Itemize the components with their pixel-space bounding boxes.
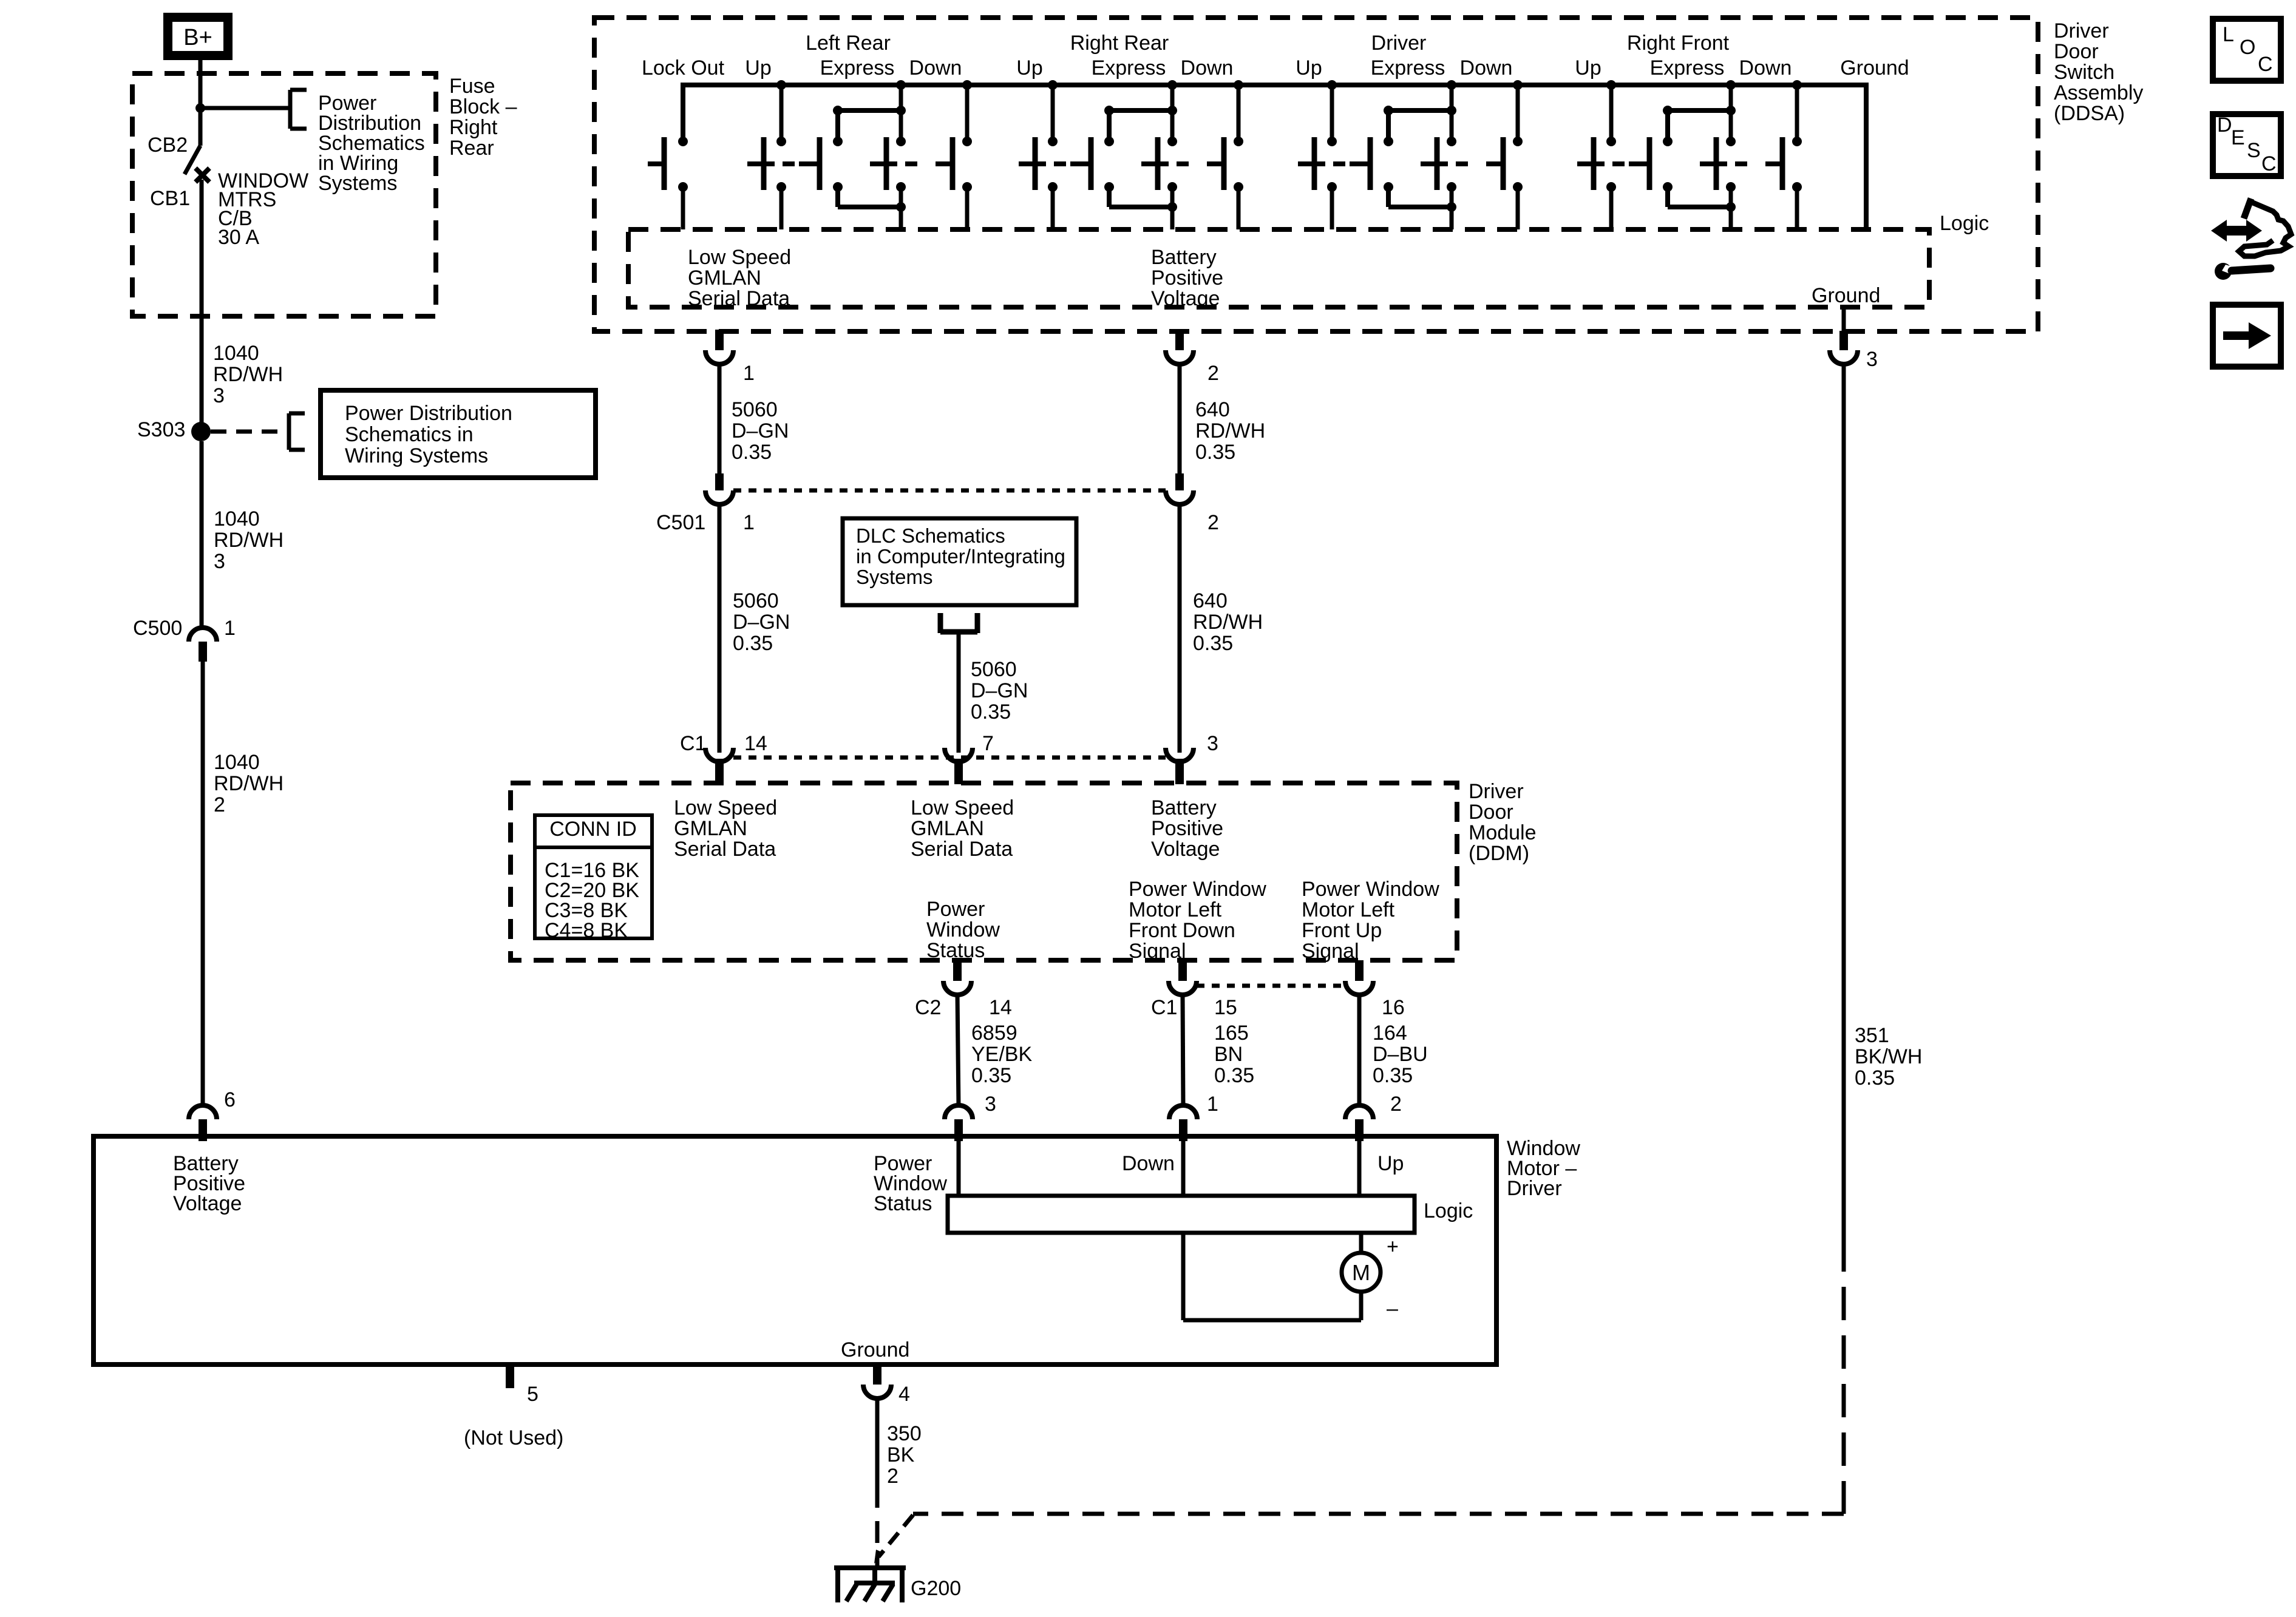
wire DDSA pin2 to C501 (640 RD/WH 0.35): [1178, 364, 1182, 475]
svg-text:RD/WH: RD/WH: [1195, 419, 1265, 442]
svg-text:Power Window: Power Window: [1129, 878, 1266, 901]
svg-text:GMLAN: GMLAN: [674, 817, 747, 840]
wires motor pins into logic bar: [959, 1141, 1359, 1196]
wire label 1040 RD/WH 2: [214, 751, 284, 816]
wire label 350 BK 2: [887, 1422, 922, 1488]
svg-text:Status: Status: [874, 1192, 932, 1215]
svg-text:0.35: 0.35: [732, 441, 772, 464]
svg-text:Motor Left: Motor Left: [1129, 898, 1222, 921]
svg-text:Right: Right: [449, 116, 498, 139]
svg-text:Express: Express: [1371, 56, 1445, 80]
wire logic bar to motor +: [1359, 1233, 1364, 1253]
label Up (Driver): [1296, 56, 1322, 80]
svg-text:Door: Door: [2054, 40, 2099, 63]
label Down (Right Rear): [1181, 56, 1234, 80]
LOC reference icon: [2213, 19, 2281, 81]
wire label 6859 YE/BK 0.35: [971, 1022, 1032, 1087]
Driver Down switch: [1486, 161, 1503, 166]
svg-text:Driver: Driver: [1371, 32, 1427, 55]
svg-text:Logic: Logic: [1424, 1199, 1473, 1222]
svg-text:0.35: 0.35: [1214, 1064, 1254, 1087]
DDSA outer box (Driver Door Switch Assembly): [594, 18, 2038, 331]
svg-text:2: 2: [1390, 1093, 1402, 1116]
switch group Right Rear: [1019, 80, 1243, 229]
svg-text:1: 1: [1207, 1093, 1218, 1116]
svg-text:Motor Left: Motor Left: [1302, 898, 1395, 921]
pin number 3: [1207, 732, 1218, 755]
svg-text:0.35: 0.35: [971, 700, 1011, 724]
circuit breaker CB1 WINDOW MTRS C/B 30 A: [185, 108, 209, 182]
svg-text:1: 1: [743, 362, 755, 385]
wire DDM C1-15 to motor pin 1 (165 BN 0.35): [1183, 995, 1183, 1107]
pin number 5: [527, 1383, 538, 1406]
pin number 3 (motor): [985, 1093, 996, 1116]
svg-text:C1: C1: [1151, 996, 1177, 1019]
label Logic (motor): [1424, 1199, 1473, 1222]
svg-text:Driver: Driver: [2054, 19, 2109, 42]
svg-text:Signal: Signal: [1302, 940, 1359, 963]
wire label 5060 D-GN 0.35: [732, 398, 789, 464]
DDM connector C1 pin 7: [945, 748, 973, 784]
svg-text:0.35: 0.35: [1855, 1066, 1895, 1090]
switch group Driver: [1298, 80, 1523, 229]
wire label 640 RD/WH 0.35: [1193, 589, 1263, 655]
svg-text:Low Speed: Low Speed: [674, 796, 777, 819]
svg-text:GMLAN: GMLAN: [688, 266, 761, 290]
svg-text:O: O: [2240, 36, 2255, 59]
label Up (Left Rear): [745, 56, 771, 80]
svg-text:Logic: Logic: [1940, 212, 1989, 235]
wire label 5060 D-GN 0.35: [733, 589, 790, 655]
svg-text:14: 14: [989, 996, 1012, 1019]
motor pin 4 connector (ground): [863, 1364, 891, 1398]
svg-text:Up: Up: [1016, 56, 1042, 80]
svg-text:Driver: Driver: [1469, 780, 1524, 803]
svg-text:Front Down: Front Down: [1129, 919, 1235, 942]
pin number 2: [1207, 362, 1219, 385]
label Power Window Status (DDM): [926, 898, 1000, 962]
svg-text:CONN ID: CONN ID: [549, 818, 637, 841]
connector C501 pin 2: [1166, 473, 1194, 504]
svg-text:5060: 5060: [971, 658, 1017, 681]
wire junction to power distribution reference: [200, 106, 290, 110]
svg-text:5060: 5060: [732, 398, 778, 421]
svg-text:Down: Down: [909, 56, 962, 80]
svg-text:Express: Express: [1650, 56, 1725, 80]
svg-text:Signal: Signal: [1129, 940, 1186, 963]
label Battery Positive Voltage (DDSA): [1151, 246, 1223, 310]
pin number 1 at C500: [224, 617, 236, 640]
label Up (Right Front): [1575, 56, 1601, 80]
label Ground (DDSA logic): [1812, 284, 1880, 307]
pin number 4: [898, 1383, 910, 1406]
svg-text:Driver: Driver: [1507, 1177, 1562, 1200]
svg-text:CB1: CB1: [150, 187, 190, 210]
label CB2: [148, 134, 188, 157]
Right Rear Up/Express gang linkage: [1054, 161, 1066, 166]
group title Driver: [1371, 32, 1427, 55]
label C1: [680, 732, 706, 755]
svg-text:4: 4: [898, 1383, 910, 1406]
svg-text:DLC Schematics: DLC Schematics: [856, 524, 1005, 547]
svg-text:5060: 5060: [733, 589, 779, 612]
dashed continuation of ground wire to G200: [913, 1238, 1844, 1514]
svg-text:Ground: Ground: [1840, 56, 1909, 80]
svg-text:15: 15: [1214, 996, 1237, 1019]
svg-text:C500: C500: [133, 617, 182, 640]
DDSA internal logic box: [628, 229, 1929, 307]
fuse block label Fuse Block - Right Rear: [449, 75, 517, 160]
svg-text:G200: G200: [911, 1577, 961, 1600]
wire DDM C2-14 to motor pin 3 (6859 YE/BK 0.35): [957, 995, 959, 1107]
svg-text:Fuse: Fuse: [449, 75, 495, 98]
label Lock Out: [642, 56, 725, 80]
C501 connector dotted line: [733, 489, 1166, 493]
svg-text:S303: S303: [137, 418, 185, 441]
svg-text:2: 2: [214, 793, 225, 816]
svg-text:Down: Down: [1122, 1152, 1175, 1175]
label Low Speed GMLAN Serial Data (DDM pin7): [911, 796, 1014, 861]
Right Rear Express/Down gang linkage: [1177, 161, 1189, 166]
svg-text:Down: Down: [1181, 56, 1234, 80]
svg-text:Door: Door: [1469, 801, 1513, 824]
label Power Window Motor Left Front Up Signal: [1302, 878, 1439, 963]
svg-text:in Computer/Integrating: in Computer/Integrating: [856, 545, 1065, 568]
svg-text:0.35: 0.35: [1195, 441, 1235, 464]
svg-text:BK: BK: [887, 1443, 915, 1466]
wire C500 to window motor pin 6 (1040 RD/WH 2): [201, 662, 205, 1107]
motor + terminal: [1387, 1235, 1399, 1258]
svg-text:Systems: Systems: [318, 172, 397, 195]
label C1 (bottom): [1151, 996, 1177, 1019]
Left Rear Up switch: [776, 80, 786, 90]
svg-text:Battery: Battery: [1151, 796, 1217, 819]
window motor box (Window Motor - Driver): [93, 1136, 1496, 1364]
svg-text:Up: Up: [1296, 56, 1322, 80]
svg-text:E: E: [2231, 126, 2245, 149]
svg-text:1: 1: [743, 511, 755, 534]
wire label 1040 RD/WH 3: [213, 342, 283, 407]
Right Rear Express switch (up contact): [1070, 161, 1091, 166]
label Ground (DDSA top): [1840, 56, 1909, 80]
svg-text:164: 164: [1373, 1022, 1407, 1045]
svg-text:M: M: [1352, 1260, 1370, 1285]
svg-text:Up: Up: [1575, 56, 1601, 80]
svg-text:GMLAN: GMLAN: [911, 817, 984, 840]
pin number 1 (motor): [1207, 1093, 1218, 1116]
svg-text:(DDM): (DDM): [1469, 842, 1529, 865]
svg-text:Low Speed: Low Speed: [688, 246, 791, 269]
svg-text:14: 14: [744, 732, 767, 755]
svg-text:RD/WH: RD/WH: [1193, 611, 1263, 634]
CONN ID header: [549, 818, 637, 841]
svg-text:D–GN: D–GN: [971, 679, 1028, 702]
svg-text:–: –: [1387, 1297, 1398, 1320]
svg-text:Up: Up: [1377, 1152, 1404, 1175]
Left Rear Down switch: [936, 161, 953, 166]
pin number 14: [989, 996, 1012, 1019]
svg-text:D–GN: D–GN: [732, 419, 789, 442]
switch group Left Rear: [648, 80, 972, 229]
svg-text:Express: Express: [820, 56, 895, 80]
motor pin 1 connector: [1169, 1105, 1197, 1141]
svg-text:3: 3: [214, 550, 225, 573]
Left Rear Express switch (down contact): [896, 80, 906, 90]
label Power Window Status (motor): [874, 1152, 947, 1215]
fuse block box: [132, 73, 436, 316]
label CB1: [150, 187, 190, 210]
Right Rear Down switch: [1207, 161, 1224, 166]
svg-text:BK/WH: BK/WH: [1855, 1045, 1922, 1068]
pin number 2 at C501: [1207, 511, 1219, 534]
label Down (Right Front): [1739, 56, 1792, 80]
svg-text:YE/BK: YE/BK: [971, 1043, 1032, 1066]
pin number 6: [224, 1088, 236, 1111]
svg-text:165: 165: [1214, 1022, 1249, 1045]
pin number 15: [1214, 996, 1237, 1019]
svg-text:Ground: Ground: [1812, 284, 1880, 307]
svg-text:Low Speed: Low Speed: [911, 796, 1014, 819]
wire B+ to fuse block: [199, 60, 203, 109]
pin number 1: [743, 362, 755, 385]
label Down (Driver): [1460, 56, 1513, 80]
DDM connector pin 16: [1345, 960, 1373, 995]
svg-text:640: 640: [1195, 398, 1230, 421]
DDM connector C1 pin 14: [705, 748, 733, 784]
CONN ID rows: [545, 859, 639, 942]
svg-text:0.35: 0.35: [733, 632, 773, 655]
motor pin 6 connector: [189, 1105, 217, 1141]
connector C501 pin 1: [705, 473, 733, 504]
label Express (Left Rear): [820, 56, 895, 80]
pin number 3: [1866, 348, 1878, 371]
svg-text:(Not Used): (Not Used): [464, 1426, 563, 1449]
svg-text:Wiring Systems: Wiring Systems: [345, 444, 488, 467]
svg-text:6: 6: [224, 1088, 236, 1111]
svg-text:Voltage: Voltage: [173, 1192, 242, 1215]
connector C500 pin 1: [189, 628, 217, 662]
svg-text:30 A: 30 A: [218, 226, 259, 249]
svg-text:Right Rear: Right Rear: [1070, 32, 1169, 55]
forward arrow icon: [2213, 305, 2281, 367]
motor pin 5 stub (not used): [506, 1364, 514, 1388]
svg-text:C1: C1: [680, 732, 706, 755]
svg-text:Rear: Rear: [449, 137, 494, 160]
label Down (motor): [1122, 1152, 1175, 1175]
Right Front Down switch: [1765, 161, 1782, 166]
label Battery Positive Voltage (DDM): [1151, 796, 1223, 861]
svg-text:Positive: Positive: [1151, 266, 1223, 290]
junction node in fuse block: [195, 103, 205, 113]
Right Front Express switch (up contact): [1629, 161, 1649, 166]
dashed reference wire from S303: [211, 430, 280, 434]
svg-text:Up: Up: [745, 56, 771, 80]
motor pin 3 connector: [945, 1105, 973, 1141]
wire label 1040 RD/WH 3: [214, 507, 284, 573]
half-connector bracket to Power Distribution Schematics: [290, 90, 307, 129]
svg-text:Serial Data: Serial Data: [674, 838, 776, 861]
svg-text:D–GN: D–GN: [733, 611, 790, 634]
label Express (Right Rear): [1092, 56, 1166, 80]
svg-text:7: 7: [982, 732, 994, 755]
svg-text:1040: 1040: [214, 751, 260, 774]
DDM connector C1 pin 15: [1169, 960, 1197, 995]
svg-text:Voltage: Voltage: [1151, 287, 1220, 310]
wire DDM pin16 to motor pin 2 (164 D-BU 0.35): [1357, 995, 1362, 1107]
Left Rear Up/Express gang linkage: [783, 161, 795, 166]
svg-text:Down: Down: [1460, 56, 1513, 80]
svg-text:6859: 6859: [971, 1022, 1017, 1045]
label S303: [137, 418, 185, 441]
svg-text:1040: 1040: [213, 342, 259, 365]
svg-text:C4=8 BK: C4=8 BK: [545, 919, 628, 942]
power distribution schematics reference box: [321, 390, 596, 478]
label Down (Left Rear): [909, 56, 962, 80]
label C500: [133, 617, 182, 640]
svg-text:5: 5: [527, 1383, 538, 1406]
group title Left Rear: [806, 32, 891, 55]
DDSA pin 3 connector (ground): [1830, 307, 1858, 364]
svg-text:RD/WH: RD/WH: [213, 363, 283, 386]
pin number 16: [1382, 996, 1405, 1019]
svg-text:Right Front: Right Front: [1627, 32, 1730, 55]
svg-text:3: 3: [985, 1093, 996, 1116]
DDM connector C2 pin 14: [943, 960, 971, 995]
Driver Express switch (up contact): [1350, 161, 1370, 166]
svg-text:Serial Data: Serial Data: [911, 838, 1013, 861]
svg-text:Assembly: Assembly: [2054, 81, 2143, 104]
svg-text:0.35: 0.35: [1193, 632, 1233, 655]
label G200: [911, 1577, 961, 1600]
svg-text:Front Up: Front Up: [1302, 919, 1382, 942]
Right Front Up/Express gang linkage: [1612, 161, 1625, 166]
splice S303: [191, 422, 211, 441]
switch group Right Front: [1577, 80, 1802, 229]
svg-text:C: C: [2261, 152, 2277, 175]
label Logic (DDSA): [1940, 212, 1989, 235]
svg-text:Battery: Battery: [1151, 246, 1217, 269]
switch bus wire: [683, 85, 1866, 231]
svg-text:1040: 1040: [214, 507, 260, 531]
DESC reference icon: [2213, 114, 2281, 176]
svg-text:3: 3: [213, 384, 225, 407]
svg-text:RD/WH: RD/WH: [214, 529, 284, 552]
label Up (motor): [1377, 1152, 1404, 1175]
DDM C1 connector row dotted line: [733, 756, 1166, 760]
svg-text:Status: Status: [926, 939, 985, 962]
svg-text:(DDSA): (DDSA): [2054, 102, 2125, 125]
pin number 1 at C501: [743, 511, 755, 534]
svg-text:Voltage: Voltage: [1151, 838, 1220, 861]
svg-text:L: L: [2223, 23, 2234, 46]
svg-text:+: +: [1387, 1235, 1399, 1258]
svg-text:B+: B+: [183, 25, 212, 50]
Right Front Express/Down gang linkage: [1735, 161, 1747, 166]
DDSA pin 1 connector: [705, 330, 733, 364]
DDM pin15-16 dotted connector line: [1197, 984, 1345, 988]
wire DDSA pin1 to C501 (5060 D-GN 0.35): [718, 364, 722, 475]
pin number 7: [982, 732, 994, 755]
label Window Motor - Driver: [1507, 1137, 1580, 1200]
wire C501-2 to DDM C1-3 (640 RD/WH 0.35): [1178, 504, 1182, 753]
B+ battery feed symbol: [168, 18, 228, 56]
svg-text:Left Rear: Left Rear: [806, 32, 891, 55]
svg-text:351: 351: [1855, 1024, 1889, 1047]
label Express (Right Front): [1650, 56, 1725, 80]
label C2: [915, 996, 941, 1019]
label Express (Driver): [1371, 56, 1445, 80]
pin number 2 (motor): [1390, 1093, 1402, 1116]
half-connector bracket below DLC box: [940, 613, 977, 633]
svg-text:350: 350: [887, 1422, 922, 1445]
svg-text:3: 3: [1866, 348, 1878, 371]
svg-text:Down: Down: [1739, 56, 1792, 80]
DDSA pin 2 connector: [1166, 330, 1194, 364]
label Up (Right Rear): [1016, 56, 1042, 80]
svg-text:Schematics in: Schematics in: [345, 423, 474, 446]
wire CB1 to S303 (1040 RD/WH 3): [200, 180, 204, 423]
Right Front Express switch (down contact): [1726, 80, 1736, 90]
svg-text:D: D: [2217, 114, 2232, 137]
Driver Up switch: [1327, 80, 1337, 90]
label Driver Door Module (DDM): [1469, 780, 1537, 865]
group title Right Front: [1627, 32, 1730, 55]
power distribution schematics note: [318, 92, 425, 195]
ground G200 symbol: [834, 1568, 906, 1602]
label Low Speed GMLAN Serial Data (DDSA): [688, 246, 791, 310]
svg-text:Power Distribution: Power Distribution: [345, 402, 512, 425]
svg-text:2: 2: [1207, 511, 1219, 534]
wire S303 to C500 (1040 RD/WH 3): [200, 441, 204, 629]
wire DDSA pin 3 ground (351 BK/WH 0.35): [1842, 364, 1846, 1238]
group title Right Rear: [1070, 32, 1169, 55]
svg-text:CB2: CB2: [148, 134, 188, 157]
Right Rear Up switch: [1048, 80, 1058, 90]
svg-text:C2: C2: [915, 996, 941, 1019]
svg-text:D–BU: D–BU: [1373, 1043, 1428, 1066]
wire C501-1 to DDM C1-14 (5060 D-GN 0.35): [718, 504, 722, 753]
wire label 5060 D-GN 0.35: [971, 658, 1028, 724]
Driver Express/Down gang linkage: [1456, 161, 1468, 166]
svg-text:2: 2: [1207, 362, 1219, 385]
DLC schematics reference box: [843, 518, 1076, 605]
DDM box (Driver Door Module): [511, 783, 1457, 960]
svg-text:Block –: Block –: [449, 95, 517, 118]
label Battery Positive Voltage (motor): [173, 1152, 245, 1215]
svg-text:C501: C501: [656, 511, 705, 534]
CONN ID table: [535, 815, 652, 938]
motor pin 2 connector: [1345, 1105, 1373, 1141]
Left Rear Express/Down gang linkage: [905, 161, 917, 166]
pin number 14: [744, 732, 767, 755]
svg-text:Window: Window: [926, 918, 1000, 941]
motor M symbol: [1342, 1253, 1381, 1292]
label Power Window Motor Left Front Down Signal: [1129, 878, 1266, 963]
svg-text:Systems: Systems: [856, 566, 933, 588]
Driver Up/Express gang linkage: [1333, 161, 1345, 166]
Right Front Up switch: [1606, 80, 1616, 90]
label WINDOW MTRS C/B 30 A: [218, 169, 308, 249]
label Driver Door Switch Assembly (DDSA): [2054, 19, 2143, 125]
svg-text:Lock Out: Lock Out: [642, 56, 725, 80]
motor logic bar: [948, 1196, 1415, 1233]
svg-text:Switch: Switch: [2054, 61, 2114, 84]
label Low Speed GMLAN Serial Data (DDM pin14): [674, 796, 777, 861]
svg-text:Serial Data: Serial Data: [688, 287, 790, 310]
svg-text:Positive: Positive: [1151, 817, 1223, 840]
svg-text:Power Window: Power Window: [1302, 878, 1439, 901]
wire label 165 BN 0.35: [1214, 1022, 1254, 1087]
